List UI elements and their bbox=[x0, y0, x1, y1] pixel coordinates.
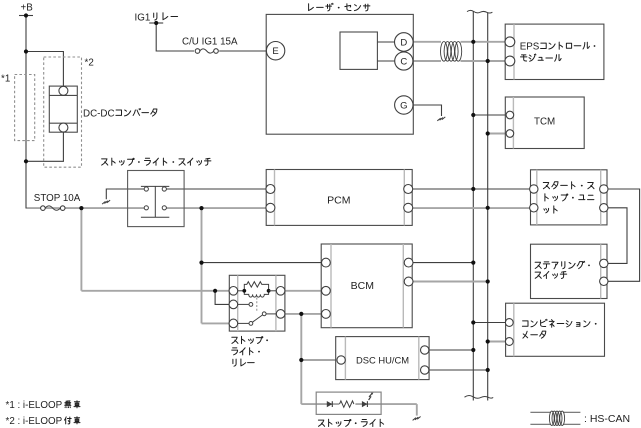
junction relay coil left bbox=[242, 289, 246, 293]
junction bus DSC R1 bbox=[471, 348, 475, 352]
label stop light switch bbox=[102, 158, 211, 165]
pin PCM R1 bbox=[404, 185, 413, 194]
pin DSC R2 bbox=[421, 366, 429, 374]
pin BCM L3 bbox=[322, 310, 331, 319]
junction IG1 terminal bbox=[154, 21, 158, 25]
svg-text:*2 : i-ELOOP: *2 : i-ELOOP bbox=[6, 416, 63, 427]
pin SSU L2 bbox=[530, 204, 538, 212]
junction relay out bbox=[299, 312, 303, 316]
junction DSC branch bbox=[299, 358, 303, 362]
label laser sensor bbox=[309, 3, 370, 11]
pin relay L1 bbox=[229, 287, 238, 296]
TCM connector strip bbox=[512, 97, 514, 149]
wire laser C to EPS via bus (CAN-L) bbox=[413, 60, 506, 62]
pin BCM R2 bbox=[404, 277, 413, 286]
node +B terminal bbox=[19, 15, 33, 17]
pin BCM L2 bbox=[322, 286, 331, 295]
relay actuator dashed link bbox=[256, 298, 258, 312]
label DSC HU/CM bbox=[356, 355, 409, 366]
ground stop light bbox=[413, 417, 421, 421]
pin DSC L1 bbox=[337, 356, 345, 364]
wire bus to TCM pin 2 bbox=[488, 133, 507, 135]
switch plunger bbox=[141, 186, 169, 217]
label C/U IG1 15A bbox=[182, 37, 238, 48]
label HS-CAN bbox=[584, 413, 630, 425]
ground stop light switch bbox=[102, 200, 110, 204]
relay coil bbox=[244, 291, 268, 297]
wire laser D to EPS via bus (CAN-H) bbox=[413, 41, 506, 43]
wire relay contact out stub bbox=[266, 313, 281, 315]
label stop light relay bbox=[232, 336, 268, 366]
label TCM bbox=[534, 116, 555, 127]
pin relay R2 bbox=[276, 310, 285, 319]
label EPS control module bbox=[520, 41, 596, 61]
wire STOP fuse row to stop light switch bbox=[26, 207, 147, 209]
svg-text:TCM: TCM bbox=[534, 116, 555, 127]
wire stop light row bbox=[301, 404, 417, 416]
junction DC-DC branch bbox=[24, 49, 28, 53]
pin C bbox=[395, 52, 413, 70]
svg-text:*1 : i-ELOOP: *1 : i-ELOOP bbox=[6, 400, 63, 411]
wire relay NO contact stub bbox=[233, 303, 249, 305]
pin EPS 1 bbox=[505, 37, 515, 47]
wire branch to DSC HU/CM bbox=[301, 359, 341, 361]
ground laser sensor G bbox=[437, 117, 445, 121]
box stop light relay bbox=[229, 275, 285, 331]
junction to BCM branch bbox=[199, 261, 203, 265]
label stop light bbox=[318, 419, 383, 426]
wire stop light switch to PCM to start-stop unit (row A) bbox=[166, 188, 533, 190]
PCM connector strips bbox=[275, 170, 405, 226]
legend HS-CAN twisted pair symbol bbox=[530, 411, 580, 425]
wire inner unit to pin D bbox=[377, 41, 394, 43]
svg-text:EPS: EPS bbox=[520, 41, 540, 52]
pin meter 2 bbox=[505, 338, 513, 346]
pin PCM L2 bbox=[266, 203, 275, 212]
box laser sensor bbox=[266, 14, 413, 134]
relay switch blade bbox=[252, 315, 262, 322]
label footnote 2 bbox=[6, 416, 81, 427]
junction bus BCM R2 bbox=[486, 279, 490, 283]
wire relay middle contact feed bbox=[215, 291, 233, 305]
wire inner unit to pin C bbox=[377, 60, 394, 62]
label *1 bbox=[1, 74, 10, 85]
box PCM bbox=[266, 170, 412, 226]
label +B bbox=[21, 3, 34, 14]
box EPS control module bbox=[505, 24, 604, 79]
start-stop unit connector strips bbox=[537, 170, 601, 225]
wire laser G to ground bbox=[413, 105, 442, 116]
pin steering R2 bbox=[600, 277, 608, 285]
wire to relay contact pin bbox=[202, 322, 234, 324]
pin E bbox=[266, 42, 284, 60]
wire fuse to laser sensor E bbox=[219, 50, 266, 52]
wire bus to combination meter pin 1 bbox=[473, 322, 509, 324]
pin relay R1 bbox=[276, 287, 285, 296]
relay contact circle out bbox=[262, 312, 266, 316]
LED stop light bbox=[362, 393, 374, 408]
switch contact bottom left bbox=[144, 206, 148, 210]
wire relay coil out bbox=[269, 290, 281, 292]
wire relay common stub bbox=[233, 322, 249, 324]
pin PCM L1 bbox=[266, 185, 275, 194]
relay contact circle common bbox=[249, 322, 253, 326]
junction bus DSC R2 bbox=[486, 368, 490, 372]
wire start-stop unit to steering switch inner loop bbox=[604, 208, 627, 264]
resistor stop light bbox=[340, 401, 354, 407]
bus break mark top bbox=[467, 10, 492, 13]
pin relay L2 bbox=[229, 300, 238, 309]
wire vertical feed to relay coil bbox=[80, 208, 82, 291]
wire switch to ground bbox=[106, 189, 144, 199]
wire IG1 relay feed bbox=[156, 23, 194, 51]
junction bus BCM R1 bbox=[471, 261, 475, 265]
svg-text:IG1: IG1 bbox=[135, 12, 151, 23]
wire relay coil feed row bbox=[81, 290, 233, 292]
junction bus D row bbox=[471, 40, 475, 44]
junction bus TCM 2 bbox=[486, 131, 490, 135]
wire start-stop unit to steering switch outer loop bbox=[604, 189, 640, 281]
pin steering R1 bbox=[600, 259, 608, 267]
junction bus meter 2 bbox=[486, 339, 490, 343]
wire stop light switch to PCM to start-stop unit (row B) bbox=[164, 207, 534, 209]
svg-text:+B: +B bbox=[21, 3, 34, 14]
box steering switch bbox=[531, 244, 608, 298]
label combination meter bbox=[522, 319, 596, 338]
pin D bbox=[395, 33, 414, 52]
pin SSU R2 bbox=[600, 204, 608, 212]
label BCM bbox=[351, 280, 374, 292]
relay contact circle NO bbox=[249, 303, 253, 307]
junction DC-DC return bbox=[24, 159, 28, 163]
junction bus TCM 1 bbox=[471, 113, 475, 117]
node IG1 relay terminal bbox=[149, 22, 163, 24]
svg-text:C: C bbox=[400, 56, 407, 67]
junction bus PCM row B bbox=[486, 206, 490, 210]
box TCM bbox=[505, 97, 584, 149]
wire vertical relay output to stop light bbox=[300, 314, 302, 404]
wire relay coil in bbox=[233, 290, 244, 292]
switch contact bottom right bbox=[162, 206, 166, 210]
meter connector strip bbox=[513, 303, 515, 356]
wire bus to TCM pin 1 bbox=[473, 114, 506, 116]
wire DSC pin R1 to bus bbox=[425, 349, 474, 351]
DSC connector strips bbox=[345, 337, 418, 380]
diode stop light bbox=[327, 401, 333, 407]
box DSC HU/CM bbox=[336, 337, 429, 380]
relay connector strips bbox=[238, 275, 276, 331]
box BCM bbox=[321, 244, 412, 328]
junction relay coil right bbox=[267, 289, 271, 293]
svg-text:: HS-CAN: : HS-CAN bbox=[584, 413, 630, 425]
box stop light switch bbox=[128, 171, 185, 227]
label footnote 1 bbox=[6, 400, 81, 411]
pin TCM 2 bbox=[506, 130, 514, 138]
pin PCM R2 bbox=[404, 203, 413, 212]
pin TCM 1 bbox=[506, 111, 514, 119]
wire DC-DC converter return bbox=[26, 132, 63, 161]
svg-text:DC-DC: DC-DC bbox=[83, 108, 115, 119]
junction relay feed bbox=[213, 289, 217, 293]
label DC-DC converter bbox=[83, 108, 157, 119]
wire relay coil out to BCM bbox=[281, 290, 326, 292]
twisted pair symbol bbox=[441, 42, 462, 62]
box start-stop unit bbox=[531, 170, 608, 225]
pin SSU L1 bbox=[530, 185, 538, 193]
svg-text:DSC HU/CM: DSC HU/CM bbox=[356, 355, 409, 366]
junction STOP fuse out bbox=[79, 206, 83, 210]
wire +B main vertical bbox=[25, 16, 27, 209]
wire relay contact out to BCM bbox=[281, 313, 326, 315]
svg-text:STOP 10A: STOP 10A bbox=[34, 193, 81, 204]
label PCM bbox=[327, 195, 350, 207]
laser sensor inner unit bbox=[340, 32, 377, 69]
pin BCM R1 bbox=[404, 258, 413, 267]
wire bus HS-CAN line 1 (left) bbox=[472, 12, 474, 401]
junction +B terminal bbox=[24, 13, 28, 17]
svg-text:*1: *1 bbox=[1, 74, 10, 85]
junction bus meter 1 bbox=[471, 320, 475, 324]
wire switch output to BCM and bus bbox=[202, 262, 474, 264]
wire vertical switch output bbox=[201, 208, 203, 323]
label steering switch bbox=[535, 261, 590, 278]
pin DSC R1 bbox=[421, 346, 429, 354]
svg-text:*2: *2 bbox=[85, 58, 94, 69]
pin relay L3 bbox=[229, 319, 238, 328]
junction switch output bbox=[199, 206, 203, 210]
wire branch to DC-DC converter bbox=[26, 52, 63, 87]
EPS connector strip bbox=[513, 24, 515, 79]
fuse STOP 10A bbox=[41, 206, 65, 211]
junction bus PCM row A bbox=[471, 187, 475, 191]
steering switch connector strip bbox=[600, 244, 602, 298]
wire DSC pin R2 to bus bbox=[425, 369, 488, 371]
svg-text:PCM: PCM bbox=[327, 195, 350, 207]
box stop light bbox=[316, 392, 381, 414]
svg-text:G: G bbox=[400, 100, 407, 111]
pin BCM L1 bbox=[322, 258, 331, 267]
label start-stop unit bbox=[543, 182, 594, 213]
svg-text:BCM: BCM bbox=[351, 280, 374, 292]
fuse C/U IG1 15A bbox=[195, 49, 218, 54]
BCM connector strips bbox=[331, 244, 403, 328]
wire bus HS-CAN line 2 (right) bbox=[487, 13, 489, 401]
junction bus C row bbox=[486, 59, 490, 63]
switch contact top right bbox=[162, 187, 166, 191]
pin meter 1 bbox=[505, 319, 513, 327]
label STOP 10A bbox=[34, 193, 81, 204]
wire bus to combination meter pin 2 bbox=[488, 341, 510, 343]
label *2 bbox=[85, 58, 94, 69]
svg-text:C/U IG1 15A: C/U IG1 15A bbox=[182, 37, 238, 48]
dashed box *2 (i-ELOOP fitted) bbox=[44, 57, 82, 167]
DC-DC converter body bbox=[49, 86, 77, 132]
pin G bbox=[395, 96, 413, 114]
svg-text:E: E bbox=[272, 46, 278, 57]
pin EPS 2 bbox=[505, 56, 515, 66]
box combination meter bbox=[506, 303, 605, 356]
pin SSU R1 bbox=[600, 185, 608, 193]
resistor stop light mask bbox=[339, 399, 355, 410]
switch contact top left bbox=[144, 187, 148, 191]
resistor relay (parallel) bbox=[244, 282, 268, 291]
wire BCM pin R2 to bus bbox=[408, 281, 487, 283]
dashed box *1 (i-ELOOP none) bbox=[15, 75, 35, 141]
label IG1 relay bbox=[135, 12, 178, 23]
bus break mark bottom bbox=[465, 396, 494, 399]
svg-text:D: D bbox=[400, 37, 407, 48]
